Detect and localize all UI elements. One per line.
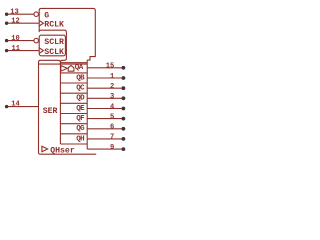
divider QF/QG — [60, 123, 87, 125]
dot pin7 — [122, 137, 126, 141]
amplifier triangle QA — [61, 66, 67, 72]
stub QF pin5 — [87, 118, 122, 120]
dot pin10 — [5, 39, 8, 42]
svg-text:SCLR: SCLR — [44, 38, 64, 47]
svg-text:3: 3 — [110, 93, 114, 101]
dot pin2 — [122, 86, 126, 90]
divider QH/QHser — [60, 143, 87, 145]
svg-text:QB: QB — [76, 74, 85, 82]
divider QC/QD — [60, 92, 87, 94]
stub QH pin7 — [87, 138, 122, 140]
svg-text:QE: QE — [76, 105, 85, 113]
inversion bubble G — [34, 12, 39, 17]
inversion bubble SCLR — [34, 38, 39, 43]
IC 74HC595 schematic symbol — [0, 0, 130, 165]
svg-text:SCLK: SCLK — [44, 48, 64, 57]
dot pin12 — [5, 22, 8, 25]
svg-text:QA: QA — [75, 64, 84, 72]
hysteresis pentagon QA — [68, 66, 74, 72]
wire pin 12 (RCLK) — [7, 22, 40, 24]
wire pin 11 (SCLK) — [7, 50, 40, 52]
stub QA pin15 — [87, 67, 122, 69]
wire pin 14 (SER) — [7, 106, 39, 108]
svg-text:G: G — [44, 12, 49, 21]
svg-text:QH: QH — [76, 135, 84, 143]
box SCLR/SCLK — [39, 35, 65, 56]
dot pin15 — [122, 66, 126, 70]
clock wedge SCLK — [39, 48, 43, 54]
dot pin11 — [5, 49, 8, 52]
svg-text:15: 15 — [106, 63, 115, 71]
svg-text:7: 7 — [110, 134, 114, 142]
divider QD/QE — [60, 102, 87, 104]
stub QD pin3 — [87, 97, 122, 99]
svg-text:QHser: QHser — [50, 146, 75, 155]
dot pin14 — [5, 105, 8, 108]
wire pin 13 (G) — [7, 13, 34, 15]
dot pin13 — [5, 13, 8, 16]
svg-text:RCLK: RCLK — [44, 21, 64, 30]
stub QHser pin9 — [87, 148, 122, 150]
clock wedge RCLK — [39, 20, 43, 26]
svg-text:QC: QC — [76, 85, 85, 93]
junction dots — [5, 13, 125, 152]
stub QE pin4 — [87, 108, 122, 110]
stub QC pin2 — [87, 87, 122, 89]
divider QG/QH — [60, 133, 87, 135]
svg-text:9: 9 — [110, 144, 114, 152]
cells right edge — [86, 60, 88, 149]
svg-text:4: 4 — [110, 103, 115, 111]
svg-text:14: 14 — [11, 101, 20, 109]
divider QB/QC — [60, 82, 87, 84]
svg-text:SER: SER — [43, 107, 58, 116]
dynamic triangle QHser — [42, 146, 48, 152]
dot pin1 — [122, 76, 126, 80]
svg-text:5: 5 — [110, 113, 114, 121]
dot pin3 — [122, 96, 126, 100]
dot pin9 — [122, 147, 126, 151]
dot pin4 — [122, 107, 126, 111]
box1 bottom edge sweeping down to cells left edge — [39, 30, 66, 144]
svg-text:QG: QG — [76, 125, 85, 133]
svg-text:QD: QD — [76, 95, 85, 103]
stub QB pin1 — [87, 77, 122, 79]
svg-text:6: 6 — [110, 124, 114, 132]
svg-text:1: 1 — [110, 73, 114, 81]
divider QA/QB — [60, 72, 87, 74]
QA top divider — [60, 62, 87, 64]
dot pin5 — [122, 117, 126, 121]
svg-text:QF: QF — [76, 115, 85, 123]
svg-text:11: 11 — [12, 45, 21, 53]
dot pin6 — [122, 127, 126, 131]
svg-text:13: 13 — [10, 9, 19, 17]
box G/RCLK left+top edge, top edge runs to right corner, down to z-step — [39, 8, 95, 60]
stub QG pin6 — [87, 128, 122, 130]
svg-text:12: 12 — [11, 18, 20, 26]
body top edge — [39, 63, 88, 65]
divider QE/QF — [60, 113, 87, 115]
svg-text:10: 10 — [11, 35, 20, 43]
svg-text:2: 2 — [110, 83, 114, 91]
body left edge — [39, 60, 61, 106]
wire pin 10 (SCLR) — [7, 40, 34, 42]
